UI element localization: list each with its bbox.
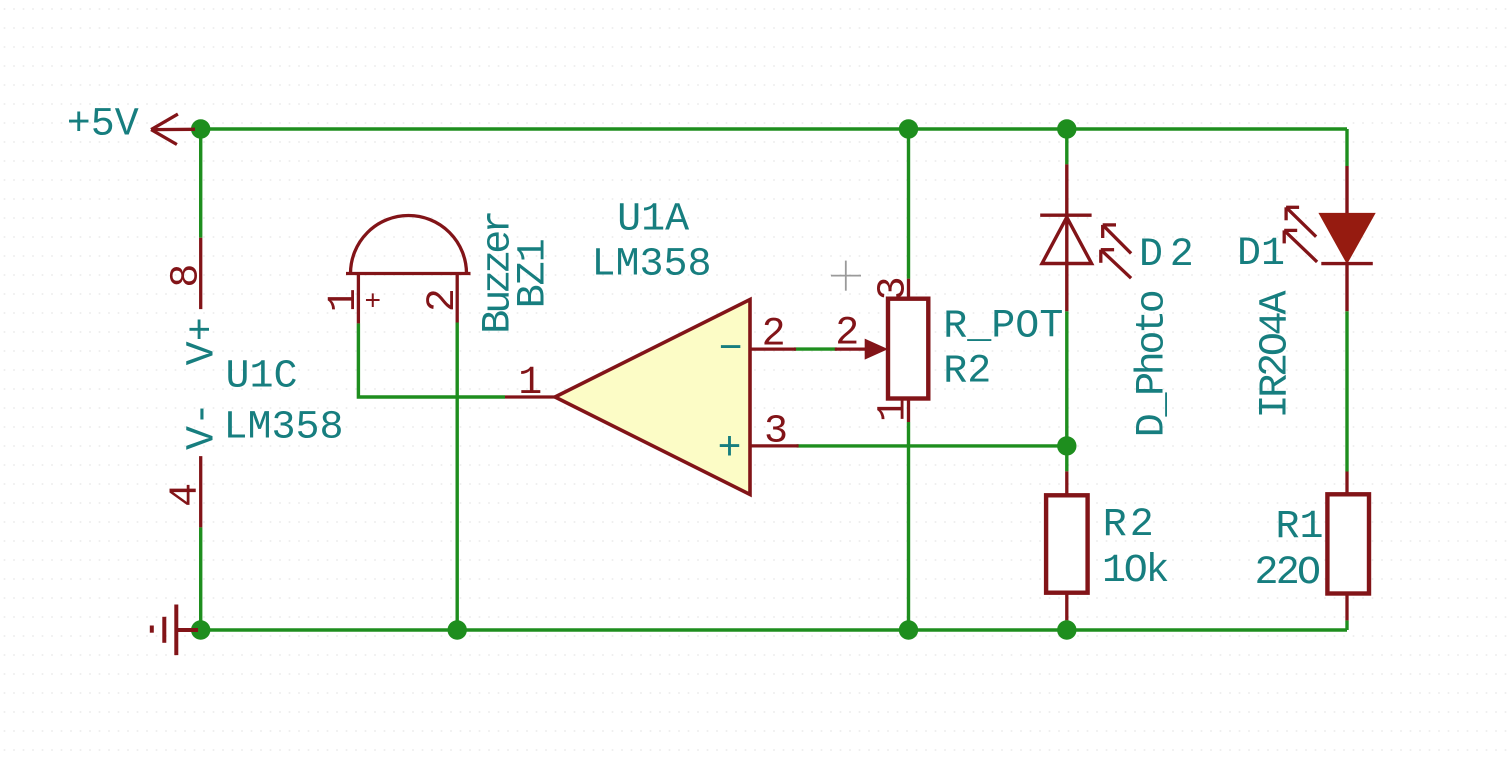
svg-text:D1: D1 bbox=[1237, 232, 1285, 277]
svg-text:U1C: U1C bbox=[226, 355, 298, 400]
photodiode D2 bbox=[1040, 164, 1091, 311]
svg-text:U1A: U1A bbox=[617, 197, 689, 242]
wire top +5V rail bbox=[201, 127, 1347, 130]
op-amp noninverting pin 3 bbox=[750, 444, 799, 447]
svg-text:1Ok: 1Ok bbox=[1102, 549, 1170, 594]
svg-text:2: 2 bbox=[762, 312, 786, 357]
svg-text:1: 1 bbox=[518, 361, 542, 406]
junction ground / R2 bbox=[1057, 620, 1076, 639]
ground bbox=[152, 605, 198, 656]
wire D2 cathode node segment bbox=[1065, 311, 1068, 471]
wire D1 cathode to R1 bbox=[1345, 311, 1348, 471]
wire rail drop to D1 bbox=[1345, 129, 1348, 166]
svg-text:8: 8 bbox=[165, 264, 210, 288]
svg-text:LM358: LM358 bbox=[224, 406, 344, 451]
wire rail drop to D2 bbox=[1065, 129, 1068, 164]
cursor crosshair bbox=[831, 261, 861, 291]
op-amp U1C power unit pin 8 bbox=[199, 238, 202, 309]
pot pin 1 bbox=[907, 399, 910, 423]
wire left vertical to U1C pin 8 bbox=[199, 129, 202, 238]
wire pot pin1 down to ground rail bbox=[907, 422, 910, 630]
wire R2 to ground rail bbox=[1065, 620, 1068, 630]
svg-text:R2: R2 bbox=[943, 350, 991, 395]
LED D1 light arrows bbox=[1284, 207, 1317, 262]
svg-text:+: + bbox=[717, 427, 741, 472]
wire buzzer pin2 down to ground rail bbox=[456, 323, 459, 631]
svg-text:3: 3 bbox=[764, 409, 788, 454]
power symbol +5V bbox=[151, 114, 195, 144]
svg-text:−: − bbox=[718, 328, 742, 373]
wire U1C pin 4 to ground rail bbox=[199, 527, 202, 630]
wire opamp inverting input to pot wiper bbox=[794, 347, 837, 350]
photodiode D2 light arrows bbox=[1101, 225, 1131, 278]
svg-text:BZ1: BZ1 bbox=[511, 238, 556, 308]
svg-text:R1: R1 bbox=[1275, 505, 1323, 550]
resistor R2 body bbox=[1046, 495, 1088, 592]
op-amp output pin 1 bbox=[505, 395, 555, 398]
op-amp inverting pin 2 bbox=[750, 347, 796, 350]
svg-text:1: 1 bbox=[322, 288, 367, 312]
LED D1 bbox=[1321, 166, 1373, 311]
svg-text:22O: 22O bbox=[1255, 551, 1322, 596]
svg-text:2: 2 bbox=[835, 311, 859, 356]
op-amp U1A bbox=[555, 300, 750, 495]
svg-text:2: 2 bbox=[421, 288, 466, 312]
wire opamp noninverting input to node bbox=[797, 444, 1067, 447]
svg-text:V-: V- bbox=[181, 402, 226, 450]
svg-text:3: 3 bbox=[872, 276, 917, 300]
wire rail drop to R_POT pin 3 bbox=[907, 129, 910, 279]
svg-text:+5V: +5V bbox=[67, 102, 139, 147]
svg-text:4: 4 bbox=[164, 483, 209, 507]
junction ground / U1C pin 4 bbox=[191, 620, 210, 639]
resistor R1 body bbox=[1327, 494, 1369, 593]
svg-text:V+: V+ bbox=[181, 317, 226, 365]
junction rail / D2 bbox=[1057, 119, 1076, 138]
svg-text:IR2O4A: IR2O4A bbox=[1254, 291, 1299, 419]
pot wiper pin 2 bbox=[835, 347, 866, 350]
svg-text:+: + bbox=[364, 288, 381, 319]
pot pin 3 bbox=[907, 279, 910, 299]
junction ground / pot pin1 bbox=[899, 620, 918, 639]
buzzer BZ1 bbox=[346, 215, 471, 323]
junction at +5V bbox=[191, 119, 210, 138]
op-amp U1C power unit pin 4 bbox=[199, 456, 202, 527]
resistor R1 pins bbox=[1345, 472, 1348, 621]
wire bottom ground rail bbox=[201, 628, 1347, 631]
svg-text:1: 1 bbox=[872, 398, 917, 422]
wire buzzer pin1 to opamp output bbox=[358, 323, 505, 397]
junction rail / R_POT bbox=[899, 119, 918, 138]
junction node opamp + input / D2 / R2 bbox=[1057, 436, 1076, 455]
junction ground / buzzer pin2 bbox=[448, 620, 467, 639]
potentiometer R_POT body bbox=[888, 299, 928, 399]
svg-text:LM358: LM358 bbox=[591, 242, 711, 287]
resistor R2 pins bbox=[1065, 471, 1068, 620]
wire R1 to ground rail bbox=[1345, 620, 1348, 630]
svg-text:D_Photo: D_Photo bbox=[1131, 289, 1176, 437]
svg-text:R_POT: R_POT bbox=[943, 305, 1063, 350]
